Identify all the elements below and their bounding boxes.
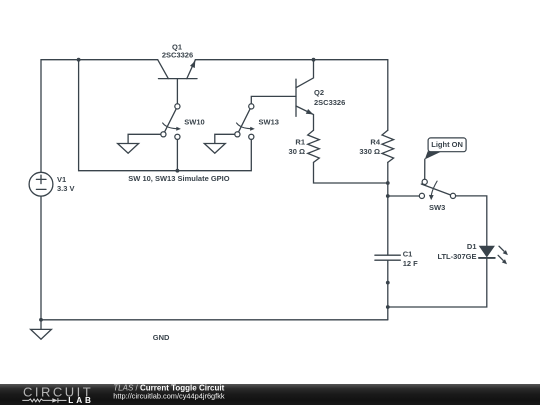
wire: R4 bottom to node, node to SW3 node xyxy=(387,162,389,196)
node: Q2 collector tap on rail xyxy=(312,58,316,62)
wire: V+ rail from V1 top to Q1 collector xyxy=(41,60,158,173)
svg-text:GND: GND xyxy=(153,333,170,342)
svg-text:330 Ω: 330 Ω xyxy=(359,147,380,156)
ground (main) xyxy=(31,320,52,339)
svg-text:LAB: LAB xyxy=(68,396,94,405)
switch SW10 xyxy=(161,104,181,140)
node: R1/R4 junction xyxy=(386,181,390,185)
svg-text:SW10: SW10 xyxy=(184,117,204,126)
ground (SW10) xyxy=(118,144,139,154)
wire: node to SW3 left terminal xyxy=(388,195,422,197)
svg-text:Light ON: Light ON xyxy=(431,140,463,149)
wire: SW13 common to ground xyxy=(215,134,238,143)
svg-text:SW13: SW13 xyxy=(259,117,279,126)
flag Light ON xyxy=(425,138,466,160)
wire: SW10 common to ground xyxy=(128,134,163,143)
wire: V1 bottom lead xyxy=(40,196,42,320)
wire: node down to C1 top plate xyxy=(387,196,389,255)
svg-text:http://circuitlab.com/cy44p4jr: http://circuitlab.com/cy44p4jr6gfkk xyxy=(113,392,225,401)
switch SW3 xyxy=(419,179,455,200)
wire: R1 bottom to node xyxy=(314,162,388,183)
switch SW13 xyxy=(235,104,255,140)
node: SW3 branch xyxy=(386,194,390,198)
node: SW10 bottom on GPIO bus xyxy=(176,169,180,173)
svg-text:R4: R4 xyxy=(370,137,380,146)
capacitor C1 xyxy=(375,255,400,260)
wire: SW3 right terminal to LED top xyxy=(453,196,487,246)
logo resistor-diode glyph xyxy=(22,398,66,403)
wire: GPIO bus drop and bottom bus to SW13 xyxy=(79,60,252,171)
svg-text:2SC3326: 2SC3326 xyxy=(162,51,193,60)
svg-text:C1: C1 xyxy=(403,249,413,258)
wire: LED return to bus node xyxy=(388,258,487,307)
wire: SW13 top to Q2 base xyxy=(251,96,296,106)
svg-text:R1: R1 xyxy=(295,137,305,146)
svg-text:2SC3326: 2SC3326 xyxy=(314,98,345,107)
svg-text:12 F: 12 F xyxy=(403,259,418,268)
wire: flag pointer to SW3 top terminal xyxy=(424,159,426,182)
footer bar xyxy=(0,384,540,405)
wire: Q1 base to SW10 top xyxy=(176,79,178,107)
wire: rail from Q1 emitter to R4 xyxy=(195,59,387,61)
svg-text:Q2: Q2 xyxy=(314,88,324,97)
node: ground junction xyxy=(39,318,43,322)
wire: SW10 bottom lead xyxy=(176,137,178,171)
transistor Q2 xyxy=(296,60,314,131)
node: LED return junction xyxy=(386,305,390,309)
ground (SW13) xyxy=(204,144,225,154)
node: C1 bottom xyxy=(386,281,390,285)
diode D1 LED xyxy=(479,246,508,264)
transistor Q1 xyxy=(158,60,197,79)
svg-text:30 Ω: 30 Ω xyxy=(289,147,305,156)
node: GPIO branch on rail xyxy=(77,58,81,62)
wire: C1 bottom plate to bottom bus xyxy=(387,260,389,320)
svg-text:V1: V1 xyxy=(57,175,66,184)
svg-text:SW 10, SW13 Simulate GPIO: SW 10, SW13 Simulate GPIO xyxy=(128,174,229,183)
voltage source V1 xyxy=(29,172,53,196)
svg-text:3.3 V: 3.3 V xyxy=(57,184,75,193)
resistor R1 xyxy=(308,130,320,162)
svg-text:D1: D1 xyxy=(467,242,477,251)
svg-text:LTL-307GE: LTL-307GE xyxy=(437,252,476,261)
svg-text:SW3: SW3 xyxy=(429,203,445,212)
wire: bottom ground bus xyxy=(41,319,388,321)
resistor R4 xyxy=(382,60,394,163)
